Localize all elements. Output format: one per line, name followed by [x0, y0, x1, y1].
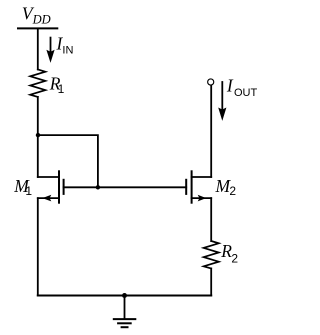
svg-text:1: 1 — [25, 184, 32, 198]
svg-text:2: 2 — [229, 184, 236, 198]
svg-text:OUT: OUT — [234, 87, 258, 99]
svg-text:2: 2 — [231, 251, 238, 265]
svg-text:1: 1 — [58, 82, 65, 96]
svg-text:DD: DD — [32, 13, 51, 27]
svg-text:I: I — [226, 75, 234, 95]
svg-text:IN: IN — [62, 44, 73, 56]
